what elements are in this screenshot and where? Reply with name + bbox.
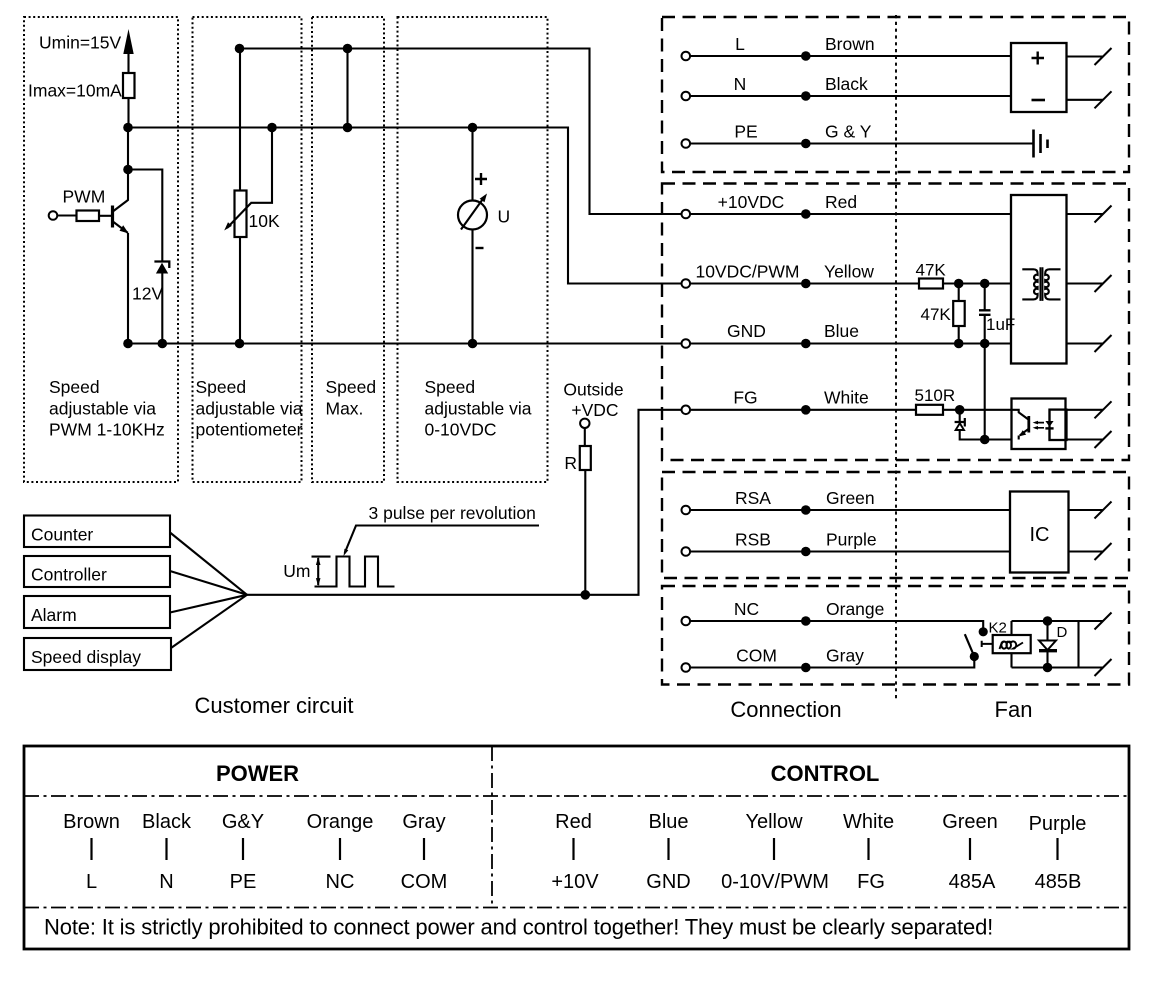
svg-text:RSA: RSA [735, 488, 771, 508]
resistor Imax=10mA body [123, 73, 135, 98]
svg-text:adjustable via: adjustable via [196, 399, 303, 419]
terminal GND [682, 339, 691, 348]
svg-text:Purple: Purple [1029, 813, 1087, 835]
resistor 47K vertical leads [958, 284, 960, 344]
PWM base resistor [77, 211, 100, 222]
svg-text:12V: 12V [132, 284, 163, 304]
optocoupler inner box [1050, 410, 1067, 440]
wire GND row [686, 342, 1011, 344]
slash yellow output [1095, 275, 1112, 292]
terminal N [682, 92, 691, 101]
terminal Outside +VDC [580, 419, 589, 428]
svg-text:Connection: Connection [730, 697, 841, 722]
svg-text:Orange: Orange [307, 811, 374, 833]
svg-text:Customer circuit: Customer circuit [195, 693, 354, 718]
terminal L [682, 52, 691, 61]
svg-text:NC: NC [734, 599, 759, 619]
resistor 510R body [916, 405, 943, 415]
svg-text:Max.: Max. [326, 399, 364, 419]
resistor 47K vertical body [953, 301, 965, 326]
svg-text:Speed: Speed [196, 377, 247, 397]
svg-text:PE: PE [230, 871, 257, 893]
svg-text:Controller: Controller [31, 565, 107, 585]
svg-text:Green: Green [942, 811, 998, 833]
wire speed display to node [171, 595, 247, 648]
opto LED lead bottom [1048, 428, 1050, 440]
alarm box [24, 596, 170, 628]
svg-text:10VDC/PWM: 10VDC/PWM [695, 262, 799, 282]
svg-text:U: U [498, 207, 511, 227]
wire counter to node [170, 533, 247, 595]
terminal 10VDC/PWM [682, 279, 691, 288]
svg-text:Orange: Orange [826, 599, 884, 619]
slash FG top output [1095, 401, 1112, 418]
wire fan gnd output [1067, 342, 1104, 344]
Outside +VDC terminal wire [584, 425, 586, 446]
diode D cathode bar [1039, 649, 1057, 652]
potentiometer body 10K [235, 191, 247, 238]
terminal RSA [682, 506, 691, 515]
svg-text:Brown: Brown [825, 34, 875, 54]
terminal RSB [682, 547, 691, 556]
table header divider line [24, 795, 1129, 797]
junction dots group [123, 44, 1052, 673]
svg-text:Yellow: Yellow [824, 262, 874, 282]
svg-text:+10V: +10V [551, 871, 599, 893]
svg-text:+VDC: +VDC [571, 400, 618, 420]
node dot customer bus [581, 590, 591, 600]
slash N output [1095, 91, 1112, 108]
speed display box [24, 638, 171, 670]
svg-text:Black: Black [825, 74, 868, 94]
opto phototransistor collector [1012, 410, 1029, 420]
wire opto top output [1066, 409, 1104, 411]
resistor R body [580, 446, 591, 470]
opto LED body [1045, 421, 1053, 427]
svg-text:Gray: Gray [402, 811, 445, 833]
svg-text:Gray: Gray [826, 646, 864, 666]
wire mid bus to collector node [127, 128, 129, 170]
return rail wire [1012, 666, 1104, 668]
slash red output [1095, 206, 1112, 223]
slash RSA output [1095, 502, 1112, 519]
svg-text:White: White [824, 388, 869, 408]
svg-text:IC: IC [1030, 524, 1050, 546]
svg-text:Imax=10mA: Imax=10mA [28, 81, 122, 101]
svg-text:Umin=15V: Umin=15V [39, 33, 122, 53]
relay armature link [982, 641, 993, 647]
svg-text:G & Y: G & Y [825, 122, 872, 142]
wire emitter to ground bus [127, 233, 129, 344]
wire alarm to node [170, 595, 247, 613]
wire NC row [686, 621, 983, 628]
open terminals group [49, 52, 690, 672]
rectifier plus sign [1032, 52, 1045, 65]
voltmeter plus sign [475, 173, 487, 185]
customer circuit bus wire to FG terminal [247, 410, 686, 595]
slash RSB output [1095, 543, 1112, 560]
wire zener to ground bus [161, 274, 163, 344]
optocoupler U2 box [1012, 399, 1066, 450]
potentiometer wiper arrowhead [224, 222, 232, 230]
wire R to customer bus [584, 470, 586, 595]
capacitor 1uF leads [984, 284, 986, 344]
svg-text:Green: Green [826, 488, 875, 508]
zener diode 12V body [156, 263, 168, 274]
svg-text:Blue: Blue [824, 321, 859, 341]
Um dimension arrowheads [316, 557, 321, 587]
capacitor 1uF plates [979, 310, 991, 315]
wire speed-max branch [346, 49, 348, 128]
slash L output [1095, 48, 1112, 65]
terminal FG [682, 406, 691, 415]
svg-text:0-10V/PWM: 0-10V/PWM [721, 871, 829, 893]
svg-text:adjustable via: adjustable via [425, 399, 532, 419]
svg-text:485B: 485B [1035, 871, 1082, 893]
wire mid bus to voltmeter [471, 128, 473, 201]
wire rectifier plus output [1067, 55, 1104, 57]
speed max dotted box [312, 17, 384, 482]
counter box [24, 516, 170, 548]
svg-text:47K: 47K [921, 305, 952, 324]
node dots terminal rows [801, 51, 811, 61]
voltmeter minus sign [476, 247, 484, 249]
wire IC top output [1069, 509, 1104, 511]
wire +10VDC row [686, 213, 1011, 215]
svg-text:Purple: Purple [826, 530, 877, 550]
slash terminals group [1095, 48, 1112, 676]
zener diode FG body [956, 423, 964, 430]
slash FG bottom output [1095, 431, 1112, 448]
wire controller to node [170, 571, 247, 595]
transistor Q1 emitter arrowhead [120, 225, 129, 233]
zener diode FG cathode bar [955, 418, 965, 427]
svg-text:G&Y: G&Y [222, 811, 264, 833]
svg-text:POWER: POWER [216, 761, 299, 786]
terminal PWM input [49, 211, 58, 220]
terminal +10VDC [682, 210, 691, 219]
relay coil K2 box [993, 635, 1031, 653]
diode D body [1039, 641, 1056, 651]
wire fan red output [1067, 213, 1104, 215]
Um dimension arrow line [317, 558, 319, 585]
terminal PE [682, 139, 691, 148]
zener diode FG stem [959, 410, 961, 422]
svg-text:potentiometer: potentiometer [196, 420, 303, 440]
leader arrowhead [344, 549, 349, 556]
wire 10VDC/PWM row to 47K [686, 282, 919, 284]
wire ground bus to GND terminal [128, 342, 686, 344]
svg-text:FG: FG [733, 388, 757, 408]
svg-text:Brown: Brown [63, 811, 120, 833]
svg-text:CONTROL: CONTROL [771, 761, 880, 786]
svg-text:PWM 1-10KHz: PWM 1-10KHz [49, 420, 165, 440]
PWM mode dotted box [24, 17, 178, 482]
wire mid bus to 10VDC/PWM terminal [128, 128, 686, 284]
svg-text:R: R [564, 453, 577, 473]
svg-text:GND: GND [727, 321, 766, 341]
wire N row [686, 95, 1011, 97]
controller box [24, 556, 170, 587]
pulse waveform [315, 557, 395, 587]
svg-text:Alarm: Alarm [31, 605, 77, 625]
svg-text:Black: Black [142, 811, 192, 833]
rectifier minus sign [1032, 99, 1046, 102]
svg-text:GND: GND [646, 871, 690, 893]
table mapping ticks control [574, 838, 1058, 860]
svg-text:Fan: Fan [995, 697, 1033, 722]
node dots left circuit [235, 44, 245, 54]
wire RSA row [686, 509, 1010, 511]
wiring table [24, 746, 1129, 949]
svg-text:1uF: 1uF [986, 315, 1015, 334]
slash gnd output [1095, 335, 1112, 352]
earth ground symbol [1034, 130, 1048, 158]
wire base resistor to transistor [99, 215, 111, 217]
0-10VDC mode dotted box [398, 17, 548, 482]
svg-text:Counter: Counter [31, 525, 93, 545]
table mapping ticks power [92, 838, 425, 860]
supply arrowhead [123, 29, 133, 54]
svg-text:White: White [843, 811, 894, 833]
svg-text:Um: Um [283, 561, 310, 581]
svg-text:Note: It is strictly prohibite: Note: It is strictly prohibited to conne… [44, 915, 993, 940]
table note divider line [24, 907, 1129, 909]
svg-text:RSB: RSB [735, 530, 771, 550]
relay coil K2 winding [1000, 641, 1024, 649]
diode D leads [1046, 621, 1048, 668]
svg-text:Red: Red [555, 811, 592, 833]
leader line 3 pulse per revolution [345, 526, 539, 554]
slash COM output [1095, 659, 1112, 676]
wire coil top to NC rail [1010, 621, 1012, 635]
wire COM row [686, 660, 974, 668]
potentiometer mode dotted box [193, 17, 302, 482]
potentiometer bottom wire [239, 237, 241, 344]
wire coil bottom to return rail [1010, 653, 1012, 667]
node dots filter network [954, 279, 964, 289]
svg-text:47K: 47K [916, 261, 947, 280]
IC box [1010, 492, 1069, 573]
terminal COM [682, 663, 691, 672]
opto LED cathode bar [1045, 427, 1053, 429]
svg-text:Yellow: Yellow [745, 811, 803, 833]
potentiometer wiper arrow [227, 203, 251, 228]
wire 1uF node down to opto return [984, 344, 986, 440]
NC rail wire [1012, 620, 1104, 622]
resistor 47K horizontal body [919, 279, 943, 289]
wire IC bottom output [1069, 550, 1104, 552]
wire PE row [686, 142, 1033, 144]
transformer T1 core [1040, 267, 1042, 301]
wire collector node to zener branch [128, 170, 162, 263]
svg-text:Speed: Speed [425, 377, 476, 397]
svg-text:Speed: Speed [326, 377, 377, 397]
voltmeter needle arrowhead [480, 194, 487, 203]
control connection dashed box [662, 184, 1129, 461]
zener diode 12V cathode bar [154, 262, 169, 269]
opto phototransistor base bar [1027, 416, 1030, 433]
svg-text:K2: K2 [989, 620, 1007, 637]
wire rectifier minus output [1067, 99, 1104, 101]
transformer T1 primary [1022, 269, 1037, 299]
svg-text:10K: 10K [249, 211, 280, 231]
relay switch blade [965, 634, 975, 656]
mains connection dashed box [662, 17, 1129, 172]
wire FG row to 510R [686, 409, 916, 411]
svg-text:L: L [86, 871, 97, 893]
transformer T1 secondary [1045, 269, 1060, 299]
wire L row [686, 55, 1011, 57]
relay connection dashed box [662, 586, 1129, 685]
node dots relay [979, 627, 988, 636]
rectifier box [1011, 43, 1067, 112]
slash NC output [1095, 613, 1112, 630]
wire wiper to mid bus [251, 128, 273, 203]
opto LED lead top [1048, 410, 1050, 421]
table outer border [24, 746, 1129, 949]
svg-text:0-10VDC: 0-10VDC [425, 420, 497, 440]
svg-text:Blue: Blue [648, 811, 688, 833]
separator dotted line between Connection and Fan [895, 15, 897, 700]
svg-text:Red: Red [825, 192, 857, 212]
table power/control divider line [491, 746, 493, 908]
PWM input wire [53, 214, 77, 216]
wire opto bottom output [1067, 438, 1104, 440]
transistor Q1 base bar [111, 206, 114, 228]
opto light arrows [1035, 423, 1044, 428]
svg-text:FG: FG [857, 871, 885, 893]
svg-text:PWM: PWM [63, 187, 106, 207]
svg-text:D: D [1057, 624, 1068, 641]
potentiometer top wire [239, 49, 241, 191]
svg-text:COM: COM [736, 646, 777, 666]
opto emitter arrowhead [1019, 430, 1026, 436]
RS485 connection dashed box [662, 472, 1129, 578]
wire resistor to mid bus [127, 98, 129, 128]
wire zener to opto return [960, 430, 1012, 440]
wire fan yellow output [1067, 282, 1104, 284]
svg-text:NC: NC [326, 871, 355, 893]
svg-text:+10VDC: +10VDC [718, 192, 785, 212]
svg-text:COM: COM [401, 871, 448, 893]
svg-text:L: L [735, 34, 745, 54]
voltmeter needle [461, 200, 483, 230]
svg-text:485A: 485A [949, 871, 996, 893]
wire RSB row [686, 550, 1010, 552]
svg-text:Outside: Outside [563, 380, 623, 400]
svg-text:Speed display: Speed display [31, 647, 141, 667]
svg-text:N: N [734, 74, 747, 94]
Um dimension top tick [312, 556, 331, 558]
svg-text:510R: 510R [915, 386, 956, 405]
svg-text:adjustable via: adjustable via [49, 399, 156, 419]
voltmeter U circle [458, 201, 487, 230]
wire 47K to fan box [943, 282, 1011, 284]
svg-text:N: N [159, 871, 173, 893]
wire voltmeter to ground bus [471, 230, 473, 344]
transistor Q1 emitter [113, 222, 128, 233]
wire top bus to +10VDC terminal [240, 49, 687, 215]
wire supply arrow stem [127, 46, 129, 73]
svg-text:Speed: Speed [49, 377, 100, 397]
svg-text:3 pulse per revolution: 3 pulse per revolution [369, 503, 536, 523]
wire 510R to opto [943, 409, 1012, 411]
rail end vertical wire [1077, 621, 1079, 668]
svg-text:PE: PE [734, 122, 757, 142]
opto phototransistor emitter [1019, 429, 1029, 440]
fan motor box [1011, 195, 1067, 364]
terminal NC [682, 617, 691, 626]
transistor Q1 collector [113, 170, 128, 212]
